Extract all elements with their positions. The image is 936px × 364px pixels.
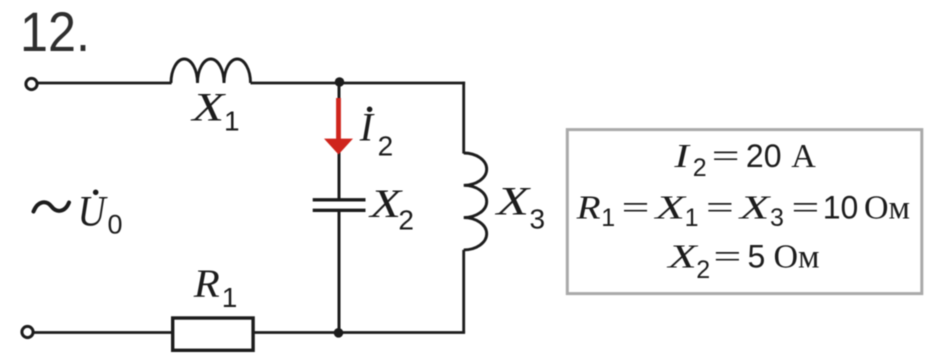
svg-text:Ом: Ом bbox=[774, 239, 820, 276]
terminal T1 top-left bbox=[26, 78, 37, 89]
svg-text:X: X bbox=[666, 239, 699, 276]
svg-text:12.: 12. bbox=[20, 0, 90, 63]
terminal T2 bottom-left bbox=[22, 326, 33, 337]
svg-text:X: X bbox=[653, 190, 687, 227]
wire bottom-left horizontal bbox=[34, 331, 173, 334]
wire middle branch upper bbox=[338, 82, 341, 199]
resistor R1 bbox=[173, 318, 253, 350]
svg-text:X: X bbox=[190, 85, 227, 130]
svg-text:2: 2 bbox=[693, 154, 707, 182]
wire top-left horizontal bbox=[38, 82, 172, 85]
svg-text:А: А bbox=[791, 138, 816, 175]
wire middle branch lower bbox=[338, 212, 341, 334]
svg-text:1: 1 bbox=[222, 282, 238, 313]
svg-text:10: 10 bbox=[823, 190, 859, 226]
svg-text:3: 3 bbox=[770, 204, 784, 232]
svg-text:X: X bbox=[494, 178, 531, 223]
svg-text:0: 0 bbox=[108, 210, 123, 240]
svg-text:20: 20 bbox=[746, 138, 782, 174]
svg-text:=: = bbox=[706, 190, 734, 227]
svg-text:1: 1 bbox=[601, 204, 615, 232]
svg-text:Ом: Ом bbox=[864, 190, 910, 227]
wire bottom-right horizontal bbox=[255, 331, 466, 334]
inductor X3 bbox=[464, 153, 487, 250]
inductor X1 bbox=[171, 59, 251, 83]
svg-text:1: 1 bbox=[224, 105, 240, 136]
svg-text:5: 5 bbox=[748, 239, 766, 275]
svg-text:2: 2 bbox=[696, 256, 710, 284]
svg-text:=: = bbox=[713, 239, 741, 276]
parameter box bbox=[567, 130, 922, 294]
node B bottom junction bbox=[334, 328, 344, 338]
svg-text:I: I bbox=[359, 105, 375, 150]
svg-text:=: = bbox=[791, 190, 819, 227]
capacitor X2 bbox=[313, 198, 366, 201]
current arrow I2 bbox=[324, 98, 353, 155]
svg-text:1: 1 bbox=[685, 204, 699, 232]
value line I2 = 20 A bbox=[673, 138, 816, 182]
svg-text:2: 2 bbox=[378, 131, 394, 162]
value line R1 = X1 = X3 = 10 Om bbox=[576, 190, 911, 233]
value line X2 = 5 Om bbox=[666, 239, 820, 285]
svg-text:R: R bbox=[193, 261, 220, 306]
svg-text:R: R bbox=[576, 190, 601, 227]
svg-text:I: I bbox=[673, 138, 691, 175]
node A top junction bbox=[335, 77, 345, 87]
wire top-right horizontal bbox=[251, 82, 466, 85]
svg-text:=: = bbox=[622, 190, 650, 227]
svg-text:X: X bbox=[737, 190, 771, 227]
source symbol tilde bbox=[34, 202, 70, 211]
wire right branch lower bbox=[462, 250, 465, 333]
svg-text:2: 2 bbox=[398, 205, 414, 236]
svg-text:U: U bbox=[78, 189, 109, 236]
svg-text:3: 3 bbox=[530, 204, 546, 235]
svg-text:=: = bbox=[712, 138, 740, 175]
wire right branch upper bbox=[462, 82, 465, 154]
